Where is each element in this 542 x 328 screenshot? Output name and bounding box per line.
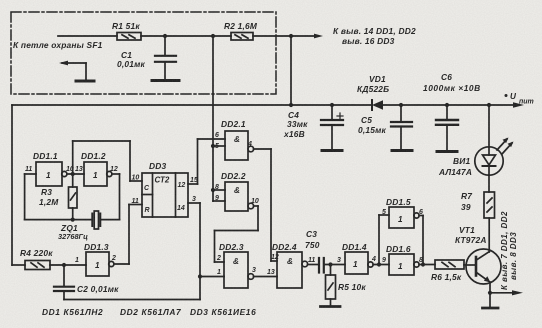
svg-text:10: 10 (251, 198, 259, 205)
shield dash-dot box (11, 12, 276, 94)
svg-text:х16В: х16В (283, 129, 305, 139)
svg-text:12: 12 (271, 254, 279, 261)
svg-text:14: 14 (177, 205, 185, 212)
svg-text:750: 750 (305, 240, 320, 250)
svg-text:6: 6 (215, 132, 219, 139)
node dot C1 top (163, 34, 167, 38)
inverter DD1.4 (337, 242, 376, 274)
svg-text:DD3 К561ИЕ16: DD3 К561ИЕ16 (190, 307, 256, 317)
svg-text:&: & (287, 257, 293, 266)
wire: DD3 out 3 down (188, 203, 200, 300)
svg-text:С6: С6 (441, 72, 452, 82)
svg-text:КД522Б: КД522Б (357, 84, 389, 94)
svg-text:DD1.1: DD1.1 (33, 151, 58, 161)
wire: arrow to К выв.7 (490, 290, 523, 295)
svg-text:3: 3 (192, 196, 196, 203)
resistor R6 (431, 260, 464, 282)
svg-text:0,01мк: 0,01мк (117, 59, 145, 69)
node dot (377, 262, 381, 266)
svg-text:1,2М: 1,2М (39, 197, 59, 207)
capacitor C3 (305, 229, 324, 273)
svg-text:DD1.4: DD1.4 (342, 242, 367, 252)
wire: DD2.2 out to DD2.3 pin2 (215, 206, 259, 262)
svg-text:1: 1 (95, 261, 100, 270)
wire: R2 to output node (253, 35, 291, 37)
resistor R5 (326, 275, 367, 299)
svg-text:пит: пит (519, 99, 534, 106)
svg-text:К выв. 7 DD1, DD2: К выв. 7 DD1, DD2 (500, 211, 509, 290)
wire: pin8 stub (213, 189, 225, 191)
node dot (71, 172, 75, 176)
ground (322, 149, 342, 152)
wire: emitter down (489, 282, 491, 307)
wire: DD2.3 out to DD2.4 pin13 (254, 276, 277, 278)
wire: DD1.5 out down (419, 216, 423, 265)
node dot (71, 218, 75, 222)
svg-text:1: 1 (217, 269, 221, 276)
svg-text:R1 51к: R1 51к (112, 21, 140, 31)
counter DD3 (132, 161, 198, 217)
transistor VT1 (455, 225, 501, 284)
ground (76, 80, 94, 83)
capacitor C2 (54, 265, 119, 300)
wire: DD1.1 out to DD1.2 in (67, 173, 84, 175)
svg-text:DD1 К561ЛН2: DD1 К561ЛН2 (42, 307, 103, 317)
svg-text:DD3: DD3 (149, 161, 166, 171)
svg-text:DD2.3: DD2.3 (219, 242, 244, 252)
NAND DD2.2 (215, 171, 259, 211)
node label: К выв.7 DD1,DD2 выв.8 DD3 (vertical) (500, 211, 518, 290)
svg-text:11: 11 (25, 166, 32, 173)
capacitor C5 (358, 103, 412, 149)
svg-text:33мк: 33мк (287, 119, 308, 129)
svg-text:R6 1,5к: R6 1,5к (431, 272, 462, 282)
ground (152, 79, 179, 82)
svg-text:VT1: VT1 (459, 225, 475, 235)
svg-text:С5: С5 (361, 115, 372, 125)
svg-text:выв. 8 DD3: выв. 8 DD3 (509, 232, 518, 280)
svg-text:13: 13 (75, 166, 83, 173)
wire: rail down to R4 (11, 105, 13, 265)
resistor R1 (112, 21, 141, 40)
wire: DD1.2 out down to crystal loop (112, 174, 120, 220)
svg-text:1: 1 (75, 257, 79, 264)
node dot (211, 34, 215, 38)
svg-text:DD1.6: DD1.6 (386, 244, 411, 254)
svg-text:СТ2: СТ2 (155, 176, 170, 185)
svg-text:12: 12 (110, 166, 118, 173)
node dot (328, 262, 332, 266)
wire: R5 stub (330, 265, 332, 306)
node dot (289, 34, 293, 38)
svg-text:R2 1,6М: R2 1,6М (224, 21, 258, 31)
wire: DD1.3 out to DD3 R (114, 205, 142, 265)
svg-text:DD1.5: DD1.5 (386, 197, 411, 207)
svg-text:DD2.4: DD2.4 (272, 242, 297, 252)
ground (321, 305, 341, 308)
svg-text:&: & (234, 135, 240, 144)
node dot emitter (488, 291, 492, 295)
svg-text:4: 4 (247, 141, 252, 148)
capacitor C4 (283, 103, 343, 149)
svg-text:1: 1 (398, 262, 403, 271)
wire: DD1.6 out to R6 (419, 264, 435, 266)
inverter DD1.2 (75, 151, 118, 186)
wire: input divider node down to DD2 gates (212, 36, 214, 201)
ground (437, 150, 457, 153)
svg-text:2: 2 (216, 255, 221, 262)
NAND DD2.1 (215, 119, 254, 160)
svg-text:11: 11 (132, 198, 139, 205)
svg-text:13: 13 (267, 269, 275, 276)
inverter DD1.1 (25, 151, 74, 186)
capacitor C6 (423, 72, 481, 150)
ground (392, 149, 412, 152)
wire: oscillator bottom loop (25, 219, 120, 221)
resistor R4 (20, 248, 53, 270)
wire: R7 to collector (488, 218, 490, 252)
wire: guard loop ground arrow (59, 61, 86, 80)
capacitor C1 (117, 36, 176, 79)
svg-text:5: 5 (382, 209, 386, 216)
svg-text:2: 2 (111, 255, 116, 262)
wire: arrow to К выв.14 (291, 34, 323, 39)
wire: R1 to R2 (141, 35, 231, 37)
svg-text:R: R (145, 207, 150, 214)
wire: C3 to DD1.4 (325, 264, 345, 266)
svg-text:&: & (234, 186, 240, 195)
node label: К выв. 14 DD1, DD2 выв. 16 DD3 (333, 26, 416, 46)
svg-text:1: 1 (46, 171, 51, 180)
wire: +U power rail (12, 102, 524, 107)
svg-text:ВИ1: ВИ1 (453, 156, 470, 166)
svg-text:3: 3 (337, 257, 341, 264)
NAND DD2.3 (216, 242, 256, 288)
svg-text:DD1.2: DD1.2 (81, 151, 106, 161)
svg-text:R4 220к: R4 220к (20, 248, 53, 258)
svg-text:DD2 К561ЛА7: DD2 К561ЛА7 (120, 307, 181, 317)
resistor R2 (224, 21, 258, 40)
wire: pin5 stub (213, 145, 225, 147)
svg-text:&: & (233, 257, 239, 266)
svg-text:VD1: VD1 (369, 74, 386, 84)
node dot (198, 274, 202, 278)
LED BI1 (438, 103, 514, 192)
wire: pin9 stub (213, 200, 225, 202)
svg-text:С2 0,01мк: С2 0,01мк (77, 284, 119, 294)
svg-text:4: 4 (371, 256, 376, 263)
svg-text:11: 11 (308, 257, 315, 264)
svg-text:10: 10 (132, 175, 140, 182)
svg-text:КТ972А: КТ972А (455, 235, 487, 245)
svg-text:32768Гц: 32768Гц (58, 232, 88, 241)
wire: R3 top/bottom (72, 174, 74, 220)
node dot rail/R2 (289, 103, 293, 107)
svg-text:1: 1 (93, 171, 98, 180)
svg-text:R3: R3 (41, 187, 52, 197)
node dot (421, 262, 425, 266)
svg-text:39: 39 (461, 202, 471, 212)
svg-text:9: 9 (382, 257, 386, 264)
node label: +Uпит (505, 92, 534, 106)
wire: DD1.1 input (25, 174, 36, 220)
resistor R3 (39, 187, 77, 208)
crystal ZQ1 (58, 211, 100, 241)
inverter DD1.5 (382, 197, 423, 228)
wire: rail to R4 / R4 to DD1.3 (12, 264, 86, 266)
resistor R7 (461, 191, 495, 218)
svg-text:0,15мк: 0,15мк (358, 125, 386, 135)
svg-text:1: 1 (353, 260, 358, 269)
ground (483, 307, 499, 310)
svg-text:выв. 16 DD3: выв. 16 DD3 (342, 36, 395, 46)
svg-text:R7: R7 (461, 191, 472, 201)
svg-text:DD2.1: DD2.1 (221, 119, 246, 129)
svg-text:АЛ147А: АЛ147А (438, 167, 472, 177)
wire: R6 to base (464, 264, 476, 266)
svg-text:12: 12 (178, 182, 186, 189)
svg-text:3: 3 (252, 267, 256, 274)
svg-text:1000мк ×10В: 1000мк ×10В (423, 83, 481, 93)
wire: DD2.4 out to C3 (308, 264, 318, 266)
wire: node A over the top to DD3 C input (73, 141, 142, 181)
svg-text:DD1.3: DD1.3 (84, 242, 109, 252)
wire: DD1.4 out to DD1.5/DD1.6 (373, 215, 389, 265)
svg-text:DD2.2: DD2.2 (221, 171, 246, 181)
wire: bottom return C2 to DD3 out (64, 299, 200, 301)
diode VD1 (357, 74, 389, 110)
inverter DD1.6 (382, 244, 423, 275)
wire: DD2.1 out down to DD2.4 pin12 (254, 149, 277, 261)
wire: to DD2.3 pin1 (200, 276, 224, 278)
node: guard loop terminal wire (58, 35, 117, 37)
wire: DD3 out 15 to DD2.1 (188, 139, 225, 184)
svg-text:С3: С3 (306, 229, 317, 239)
svg-text:1: 1 (398, 215, 403, 224)
wire: R2 node down to rail (290, 36, 292, 105)
node dot (62, 263, 66, 267)
inverter DD1.3 (75, 242, 116, 276)
svg-text:R5 10к: R5 10к (338, 282, 366, 292)
svg-text:К петле охраны SF1: К петле охраны SF1 (13, 40, 103, 50)
NAND DD2.4 (267, 242, 315, 288)
svg-text:К выв. 14 DD1, DD2: К выв. 14 DD1, DD2 (333, 26, 416, 36)
